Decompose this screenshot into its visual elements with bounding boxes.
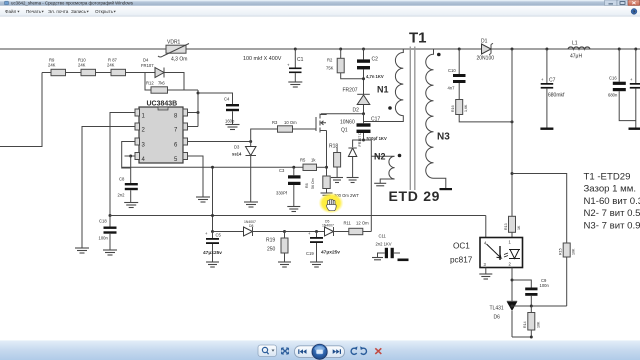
window title bar xyxy=(0,0,640,6)
transformer core xyxy=(410,47,415,191)
wire R87 to D4 xyxy=(126,72,156,74)
svg-text:R13: R13 xyxy=(504,223,508,230)
transistor Q1 10N60 mosfet xyxy=(316,114,355,134)
node C16 xyxy=(618,48,621,51)
menu bar xyxy=(0,6,640,16)
svg-text:Печать: Печать xyxy=(26,9,42,14)
svg-text:UC3843B: UC3843B xyxy=(147,100,178,107)
pin 5 xyxy=(174,153,188,164)
svg-text:C19: C19 xyxy=(306,251,314,256)
node output cap xyxy=(634,48,637,51)
node C7 xyxy=(545,48,548,51)
svg-text:T1: T1 xyxy=(409,30,427,47)
next button xyxy=(333,349,341,354)
svg-text:ETD 29: ETD 29 xyxy=(389,188,441,204)
resistor R11 12 Om xyxy=(344,221,372,235)
svg-text:N1: N1 xyxy=(377,85,389,95)
thermistor VDR1 xyxy=(158,40,189,63)
ground under C12 xyxy=(629,128,640,130)
wire VCC to C4 xyxy=(198,93,233,104)
wire vcc chain xyxy=(213,231,244,233)
svg-text:24K: 24K xyxy=(107,63,115,68)
wire pin1 to C18 column xyxy=(110,113,135,216)
pin 1 xyxy=(135,109,146,120)
capacitor C4 xyxy=(224,97,239,125)
svg-text:1,6K: 1,6K xyxy=(464,104,468,112)
inductor L1 xyxy=(568,41,590,60)
svg-text:R2: R2 xyxy=(327,58,333,63)
resistor R16 snubber xyxy=(451,100,514,124)
ground under C7 xyxy=(540,128,553,130)
svg-text:330Pf: 330Pf xyxy=(276,191,288,196)
wire Q1 source down xyxy=(325,131,328,177)
resistor R14 xyxy=(523,306,541,337)
winding N1 xyxy=(364,49,404,122)
svg-text:C1: C1 xyxy=(297,57,304,63)
svg-text:ss14: ss14 xyxy=(232,152,242,157)
play slideshow button xyxy=(311,343,328,360)
ground under C3 xyxy=(287,207,300,212)
fit button xyxy=(282,348,289,354)
svg-text:N3: N3 xyxy=(437,132,450,143)
op-amp U1 UC3843B body xyxy=(139,100,183,163)
pin 7 xyxy=(174,123,188,134)
svg-text:47μx25v: 47μx25v xyxy=(321,250,340,256)
resistor R13 xyxy=(504,216,521,237)
svg-text:100n: 100n xyxy=(99,236,109,241)
ground pin5 xyxy=(196,197,210,202)
svg-text:C8: C8 xyxy=(119,177,125,182)
ground right C11 xyxy=(398,259,409,262)
pin 3 xyxy=(135,138,146,149)
ground left C11 xyxy=(372,258,383,260)
svg-text:N2- 7 вит 0.5: N2- 7 вит 0.5 xyxy=(584,208,640,219)
wire: lower mains input to R9 xyxy=(0,73,42,147)
wire pin2 to ground column xyxy=(82,127,135,249)
winding N2 xyxy=(371,152,401,184)
svg-text:C2: C2 xyxy=(372,57,379,63)
svg-text:D1: D1 xyxy=(481,39,488,45)
capacitor C19 xyxy=(306,230,340,262)
rotate ccw button xyxy=(351,346,357,354)
wire TL431 anode rail xyxy=(512,336,533,339)
svg-text:R5: R5 xyxy=(300,158,306,163)
zoom button xyxy=(258,345,277,357)
app icon xyxy=(5,1,9,5)
svg-text:75K: 75K xyxy=(326,66,334,71)
resistor R19 xyxy=(266,230,288,262)
resistor R15 xyxy=(559,243,576,306)
svg-text:10K: 10K xyxy=(572,248,576,255)
svg-text:C11: C11 xyxy=(379,234,387,239)
ground pin2 column xyxy=(75,248,89,253)
resistor R12 7k6 xyxy=(145,73,184,94)
wire OC1 pin3 ground xyxy=(485,268,487,275)
label winding data block xyxy=(584,172,640,232)
pin 4 xyxy=(135,153,146,164)
ground under C18 xyxy=(103,250,117,255)
ground under C19 xyxy=(310,262,323,267)
bottom toolbar xyxy=(0,341,640,360)
wire secondary return bus xyxy=(110,215,486,217)
capacitor C9 xyxy=(525,278,549,306)
diode D5 1N4007 xyxy=(322,220,349,237)
capacitor C7 xyxy=(541,49,565,128)
resistor R2 75K xyxy=(326,49,364,79)
svg-text:250: 250 xyxy=(267,247,276,253)
svg-text:680mkf: 680mkf xyxy=(548,93,565,99)
wire feedback to R15 xyxy=(512,174,567,244)
svg-text:FR107: FR107 xyxy=(141,63,154,68)
svg-text:4,3 Om: 4,3 Om xyxy=(171,57,187,63)
ground under R19 xyxy=(278,262,291,267)
svg-text:N2: N2 xyxy=(374,152,386,162)
svg-text:C18: C18 xyxy=(99,219,107,224)
svg-text:1K: 1K xyxy=(517,225,521,230)
wire Q1 drain to clamp node xyxy=(321,113,364,115)
resistor R18 xyxy=(329,144,341,178)
window title text xyxy=(11,1,134,6)
help icon xyxy=(631,9,637,15)
wire pin7 VCC column xyxy=(188,90,200,127)
capacitor C17 xyxy=(357,114,387,141)
svg-text:D4: D4 xyxy=(143,58,149,63)
wire bus to OC1 pin4 xyxy=(485,216,487,238)
capacitor C12 output xyxy=(630,49,640,128)
ground under N3 xyxy=(440,188,453,190)
node top rail junction C2 xyxy=(362,48,365,51)
shunt TL431 D6 xyxy=(490,301,518,337)
resistor R3 10 Om xyxy=(272,120,316,132)
svg-text:160p: 160p xyxy=(225,119,235,124)
svg-text:?: ? xyxy=(633,9,636,14)
svg-text:24K: 24K xyxy=(48,63,56,68)
label ETD 29 xyxy=(389,188,441,204)
svg-text:47μH: 47μH xyxy=(570,54,582,60)
wire to C9 xyxy=(512,280,531,288)
capacitor C2 xyxy=(357,49,384,94)
ground under clamp diode xyxy=(347,178,359,183)
svg-text:R14: R14 xyxy=(523,321,527,328)
svg-text:C10: C10 xyxy=(448,68,456,73)
svg-text:1N4007: 1N4007 xyxy=(322,224,334,228)
svg-text:D8: D8 xyxy=(249,224,253,228)
diode D2 FR207 xyxy=(343,88,370,116)
wire vcc chain riser xyxy=(211,166,214,232)
svg-text:10 Om: 10 Om xyxy=(284,120,297,125)
wire pin8 to VCC column xyxy=(188,111,200,114)
svg-text:Открыть: Открыть xyxy=(95,9,114,14)
svg-text:Файл: Файл xyxy=(5,8,17,14)
minimize button xyxy=(605,0,618,6)
diode D4 FR107 xyxy=(141,58,164,78)
svg-text:C16: C16 xyxy=(609,76,617,81)
svg-text:uc3842_shema - Средство просмо: uc3842_shema - Средство просмотра фотогр… xyxy=(11,1,134,6)
svg-text:R15: R15 xyxy=(559,248,563,255)
svg-text:R19: R19 xyxy=(266,238,275,244)
label 100mkf xyxy=(243,56,282,62)
svg-text:D3: D3 xyxy=(234,145,240,150)
pin 2 xyxy=(135,123,146,134)
diode D8 1N4007 xyxy=(244,220,285,236)
ground under D3 xyxy=(244,202,258,207)
pin 8 xyxy=(174,109,188,120)
svg-text:Q1: Q1 xyxy=(341,128,348,134)
svg-text:2n2 1KV: 2n2 1KV xyxy=(376,242,392,247)
wire clamp node to N2 riser xyxy=(353,139,372,232)
winding N3 xyxy=(426,49,450,188)
svg-text:680n: 680n xyxy=(608,93,618,98)
svg-text:12 Om: 12 Om xyxy=(356,221,369,226)
nav pill xyxy=(295,346,345,358)
cursor highlight xyxy=(319,193,344,214)
pin 6 xyxy=(174,138,188,149)
svg-text:7k6: 7k6 xyxy=(158,81,165,86)
ground under C8 xyxy=(124,203,138,208)
wire: top mains rail xyxy=(0,48,640,50)
svg-text:R11: R11 xyxy=(344,221,352,226)
svg-text:2n2: 2n2 xyxy=(118,193,126,198)
svg-text:56 Om: 56 Om xyxy=(311,178,315,189)
wire pin3 sense loop xyxy=(122,142,135,169)
svg-text:24K: 24K xyxy=(78,63,86,68)
svg-text:R16: R16 xyxy=(451,105,455,112)
ground OC1 xyxy=(479,274,492,279)
delete button xyxy=(375,348,381,354)
wire chain to C19 xyxy=(285,231,325,233)
svg-text:Эл. почта: Эл. почта xyxy=(48,9,69,14)
ground under C1 xyxy=(288,82,302,87)
wire pin4 to C8 xyxy=(125,155,136,184)
node top rail snubber xyxy=(458,48,461,51)
optocoupler OC1 pc817 xyxy=(450,238,523,268)
capacitor C10 snubber xyxy=(448,49,466,100)
transformer T1 label xyxy=(409,30,427,47)
svg-text:OC1: OC1 xyxy=(453,242,470,251)
svg-text:L1: L1 xyxy=(572,41,578,47)
capacitor C1 xyxy=(287,48,304,83)
svg-text:N3- 7 вит 0.9: N3- 7 вит 0.9 xyxy=(584,220,640,231)
resistor R5 xyxy=(300,158,327,190)
resistor R9 xyxy=(42,58,66,76)
resistor R87 xyxy=(96,58,126,76)
svg-text:T1 -ETD29: T1 -ETD29 xyxy=(584,172,631,183)
diode gate clamp FR107 xyxy=(348,130,362,177)
capacitor C3 330Pf xyxy=(276,167,301,206)
svg-text:4n7: 4n7 xyxy=(448,86,456,91)
svg-text:D6: D6 xyxy=(494,315,501,321)
ground under sense resistor xyxy=(321,193,333,195)
svg-text:R3: R3 xyxy=(272,120,278,125)
svg-text:pc817: pc817 xyxy=(450,256,473,265)
node D1 out xyxy=(511,48,514,51)
ground under N2 xyxy=(374,183,386,186)
svg-text:R8: R8 xyxy=(305,183,309,188)
maximize button xyxy=(617,0,628,6)
close button xyxy=(628,0,640,6)
wire current sense rail xyxy=(122,166,303,169)
svg-text:C7: C7 xyxy=(549,78,556,84)
resistor sense 300 Om xyxy=(323,176,360,198)
svg-text:100n: 100n xyxy=(540,283,550,288)
svg-text:R12: R12 xyxy=(146,81,154,86)
svg-text:47μx25v: 47μx25v xyxy=(203,250,222,256)
resistor R10 xyxy=(66,58,96,76)
ground under C5 xyxy=(206,262,219,267)
svg-text:VDR1: VDR1 xyxy=(167,40,181,46)
svg-text:4,7n 1KV: 4,7n 1KV xyxy=(366,74,384,79)
wire D1 feedback column xyxy=(511,49,514,216)
menu items xyxy=(5,8,116,14)
svg-text:Запись: Запись xyxy=(71,9,87,14)
svg-text:N1-60 вит 0.3: N1-60 вит 0.3 xyxy=(584,196,640,207)
svg-text:Зазор 1 мм.: Зазор 1 мм. xyxy=(584,184,637,195)
svg-text:10N60: 10N60 xyxy=(340,120,355,126)
svg-text:TL431: TL431 xyxy=(490,306,504,312)
svg-text:20N100: 20N100 xyxy=(477,56,495,62)
wire TL431 ref rail xyxy=(511,305,567,308)
capacitor C16 xyxy=(608,49,636,121)
svg-text:C5: C5 xyxy=(216,233,222,238)
wire pin6 gate drive xyxy=(188,129,278,143)
previous button xyxy=(298,349,306,354)
wire pin5 to ground xyxy=(188,156,204,197)
svg-text:C3: C3 xyxy=(279,168,285,173)
svg-text:10K: 10K xyxy=(537,321,541,328)
capacitor C5 xyxy=(203,230,222,262)
capacitor C11 Y-cap xyxy=(376,234,401,259)
svg-text:100 mkf X 400V: 100 mkf X 400V xyxy=(243,56,282,62)
rotate cw button xyxy=(360,346,366,354)
capacitor C18 xyxy=(99,214,117,250)
svg-text:FR207: FR207 xyxy=(343,88,358,94)
capacitor C8 xyxy=(118,177,138,203)
svg-text:D2: D2 xyxy=(353,108,360,114)
ground under R18 xyxy=(331,178,343,183)
node top rail junction R2 xyxy=(339,48,342,51)
ground under C4 xyxy=(226,125,240,130)
diode D3 ss14 xyxy=(232,142,256,203)
diode D1 20N100 xyxy=(477,39,495,62)
wire D4 cathode to VCC column xyxy=(164,73,198,91)
svg-text:C4: C4 xyxy=(224,97,230,102)
wire OC1 pin2 down xyxy=(511,268,514,302)
